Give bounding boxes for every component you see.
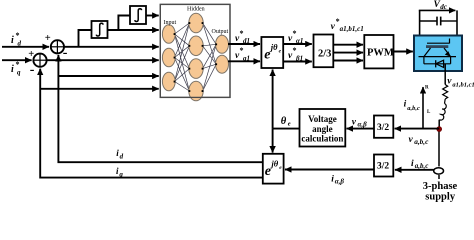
rotator block U3 e^(-j theta_e) [263,154,284,184]
svg-text:e: e [265,164,271,179]
node i*_d label [11,31,22,48]
integrator block I1 [92,21,108,38]
wire phase b to PWM [334,52,364,54]
svg-text:a1,b1,c1: a1,b1,c1 [452,81,474,88]
svg-text:d1: d1 [243,37,250,45]
node v*_a1b1c1 label [331,17,364,33]
node v_alphabeta label [352,117,367,128]
current direction arrow i_abc [422,87,424,129]
inductor L [427,99,446,120]
voltage angle calculation block [300,109,346,147]
NN layer labels [164,7,229,36]
node v*_q1 label [235,46,250,62]
IGBT Q1 collector line [427,39,450,44]
wire v*_b1 (rotator to 2/3) [283,61,312,63]
IGBT Q1 legs [424,48,451,57]
svg-text:PWM: PWM [367,48,394,59]
svg-text:calculation: calculation [301,134,343,144]
node i_d label [116,148,123,160]
svg-text:a,b,c: a,b,c [407,105,420,112]
svg-text:e: e [288,121,291,128]
inverter block (IGBT bridge) [414,36,462,72]
NN hidden neurons [189,13,203,101]
node v*_beta1 label [288,46,303,62]
svg-text:3/2: 3/2 [377,123,389,133]
svg-text:R: R [425,86,429,91]
NN connection endpoint dots [174,22,217,92]
svg-text:e: e [264,48,270,63]
svg-text:Hidden: Hidden [187,7,205,13]
wire theta_e [273,70,300,153]
svg-text:supply: supply [425,192,456,203]
node i_abc label (sensor) [411,159,428,170]
node i_alphabeta label [331,175,344,186]
summing junction S2 [28,49,46,78]
wire i*_d input [2,46,49,48]
wire to integrator 1 [79,30,92,47]
svg-text:+: + [28,49,34,60]
integrator block I2 [130,6,146,24]
svg-text:-: - [30,63,35,78]
svg-text:jθ: jθ [269,42,278,52]
transform block 3/2 (current) [374,155,393,177]
junction node (red dot) [437,127,442,132]
wire v_abc to 3/2 [395,128,440,130]
svg-text:dc: dc [440,3,447,11]
node V_dc label [434,0,447,11]
wire PWM to inverter [393,51,413,53]
svg-text:d: d [18,40,22,48]
svg-text:i: i [404,99,407,109]
svg-text:2/3: 2/3 [318,49,331,60]
wire v*_a1 (rotator to 2/3) [283,43,312,45]
svg-text:i: i [331,175,334,185]
svg-text:jθ: jθ [269,158,278,168]
svg-text:i: i [11,64,14,75]
capacitor C_dc [420,17,457,26]
wire I1 output to NN [108,29,159,31]
NN output neurons [216,35,229,73]
svg-text:q: q [17,69,21,77]
wire e_d (S1 output to NN) [64,46,159,48]
transform block 2/3 [314,35,334,68]
freewheeling diode D1 loop [424,57,451,68]
NN input neurons [162,25,175,91]
wire i_d feedback [58,55,262,162]
svg-text:d: d [120,152,124,160]
DC bus wires [419,10,457,35]
node i_abc label (top) [404,99,420,112]
wire to integrator 2 [118,16,130,31]
wire phase c to PWM [334,60,364,62]
svg-text:q1: q1 [243,54,250,62]
svg-text:angle: angle [312,124,333,134]
wire v*_q1 (NN to rotator) [228,60,260,62]
svg-text:θ: θ [281,116,287,127]
node v*_alpha1 label [288,29,303,45]
svg-text:Voltage: Voltage [308,114,337,124]
wire i_abc from sensor to 3/2 [395,169,434,171]
svg-text:Output: Output [212,29,229,35]
node i*_q label [11,60,21,77]
svg-text:i: i [11,35,14,46]
resistor R [425,85,448,100]
wire I2 output to NN [146,15,159,17]
wire inverter output [444,64,446,85]
emitter rail [419,56,457,58]
IGBT Q1 gate bar [426,45,448,48]
svg-text:i: i [411,159,414,169]
wire phase a to PWM [334,44,364,46]
svg-text:α1: α1 [296,37,303,45]
wire i_q feedback branch to NN [40,88,159,90]
NN connections input-hidden [175,23,190,91]
wire i*_q input [2,59,32,61]
node theta_e label [281,116,291,128]
summing junction S1 [45,33,68,61]
svg-text:a1,b1,c1: a1,b1,c1 [340,25,364,33]
svg-text:a,b,c: a,b,c [414,137,429,146]
current sensor CT [434,168,444,174]
svg-text:a,b,c: a,b,c [415,162,429,170]
wire i_alphabeta [285,169,374,171]
PWM block [364,35,394,68]
svg-text:α,β: α,β [358,121,368,129]
wire v*_d1 (NN to rotator) [228,43,260,45]
neural network block U1 [160,4,230,97]
node v_abc label [409,135,430,146]
rotator block U2 e^(j theta_e) [261,37,283,68]
svg-text:Input: Input [164,20,177,26]
node v_a1b1c1 label [447,77,474,89]
node 3-phase supply label [423,181,458,203]
NN connections hidden-output [203,23,217,91]
svg-text:3/2: 3/2 [377,162,389,172]
svg-text:α,β: α,β [335,177,345,185]
wire to supply [438,120,440,179]
node v*_d1 label [235,29,250,45]
NN box border redraw [160,4,230,97]
wire v_alphabeta [347,128,375,130]
wire e_q (S2 output to NN) [47,59,159,61]
svg-text:β1: β1 [295,54,303,62]
wire i_d feedback branch to NN [58,75,158,77]
svg-text:q: q [119,171,123,179]
svg-text:+: + [45,33,51,44]
transform block 3/2 (voltage) [374,116,393,138]
svg-text:3-phase: 3-phase [423,181,458,192]
wire i_q feedback [40,69,263,178]
node i_q label [116,166,123,178]
